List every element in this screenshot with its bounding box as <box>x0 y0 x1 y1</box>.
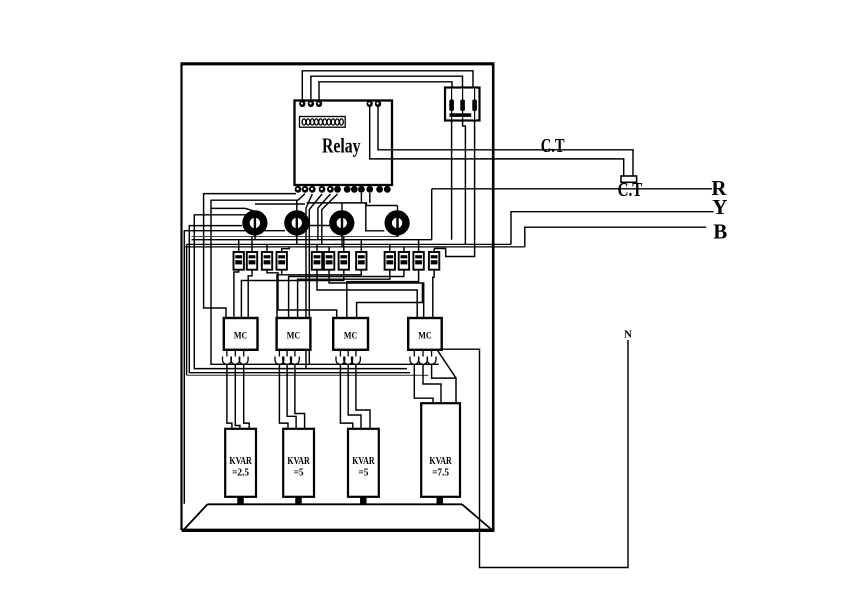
svg-text:=5: =5 <box>358 467 368 479</box>
relay bottom terminal 5 <box>327 186 334 193</box>
wire relay terminal 7 drop (to Y bus) <box>322 194 338 244</box>
wire cap2 bottom stub <box>295 497 302 505</box>
panel base trapezoid <box>183 504 493 530</box>
branch fuse 1b <box>247 252 257 270</box>
bus line Y phase <box>187 243 511 245</box>
wire rail-5 left (CT2 side / chassis drop) <box>184 231 285 504</box>
contactor MC3 <box>333 318 368 350</box>
wire Y phase line <box>511 212 714 245</box>
wire MC3 out2 to cap3 <box>348 364 361 430</box>
relay bottom terminal 8 <box>351 186 358 193</box>
wire fuse 1a to MC1 <box>234 270 239 318</box>
relay bottom terminal 2 <box>302 186 309 193</box>
wire fuse 3a top stub <box>389 244 391 252</box>
wire rail-2 left (to bump bus H1) <box>211 200 439 364</box>
fuse F1 <box>449 100 454 112</box>
contactor MC2 terminal 3 <box>291 350 300 365</box>
wire fuse 1b top stub <box>251 237 253 253</box>
wire CT3 right riser <box>366 203 385 231</box>
wire fuse 1d top stub <box>282 247 290 252</box>
relay bottom terminal 11 <box>376 186 383 193</box>
branch fuse 1d <box>277 252 287 270</box>
wire fuse F2 to Y bus <box>463 118 466 244</box>
branch fuse 3a <box>385 252 395 270</box>
svg-text:N: N <box>624 329 632 341</box>
capacitor C3 KVAR =5 <box>348 429 379 497</box>
wire MC3 out3 to cap3 <box>356 364 370 430</box>
wire cap3 bottom stub <box>360 497 367 505</box>
wire relay terminal 9 stub <box>360 193 362 203</box>
contactor MC1 terminal 2 <box>231 350 240 365</box>
wire fuse 3c to MC3 <box>347 270 419 318</box>
wire C.T secondary 1 from relay <box>378 106 633 177</box>
branch fuse 3b <box>399 252 409 270</box>
incoming fuse box <box>445 88 480 121</box>
wire MC4 out3 link <box>432 364 456 378</box>
svg-text:=5: =5 <box>294 467 304 479</box>
wire CT3 primary <box>341 203 343 247</box>
branch fuse 3d <box>429 252 439 270</box>
wire incoming fuse F3 through-wire <box>474 89 476 101</box>
wire fuse 2a to MC4 <box>317 270 417 318</box>
contactor MC2 terminal 2 <box>283 350 292 365</box>
wire neutral N run <box>438 340 628 568</box>
branch fuse 2b <box>324 252 334 270</box>
wire fuse F1 to R bus <box>451 118 453 240</box>
wire fuse 1b to MC1 <box>248 270 252 318</box>
wire CT1 primary over toroid <box>254 212 256 236</box>
wire MC2 out2 to cap2 <box>287 364 296 430</box>
wire fuse 2c to MC1 <box>241 270 343 318</box>
bus H4 (gray) <box>187 374 429 376</box>
svg-text:Relay: Relay <box>322 134 361 158</box>
wire CT2-CT3 link <box>309 225 329 227</box>
capacitor C4 KVAR =7.5 <box>421 403 460 497</box>
wire MC3 third input <box>357 283 423 318</box>
capacitor C1 KVAR =2.5 <box>225 429 256 497</box>
svg-text:MC: MC <box>344 332 358 342</box>
relay top terminal 2 <box>308 101 314 107</box>
relay bottom terminal 10 <box>366 186 373 193</box>
relay bottom terminal 7 <box>344 186 351 193</box>
branch fuse 2c <box>339 252 349 270</box>
wire R phase line <box>432 188 712 190</box>
wire fuse 1d to MC2 <box>277 270 282 318</box>
contactor MC3 terminal 2 <box>344 350 353 365</box>
wire MC1 out1 to cap1 <box>227 364 232 430</box>
wire CT4 feed from relay <box>307 203 398 206</box>
wire MC3 out1 to cap3 <box>340 364 352 430</box>
bus line R phase <box>192 239 432 241</box>
relay display <box>300 117 346 128</box>
contactor MC2 terminal 1 <box>275 350 284 365</box>
contactor MC1 terminal 1 <box>223 350 232 365</box>
wire cap4 bottom stub <box>437 497 444 505</box>
contactor MC4 terminal 3 <box>427 350 436 365</box>
wire MC1 out3 to cap1 <box>244 364 250 430</box>
relay bottom terminal 6 <box>334 186 341 193</box>
wire fuse 3b to MC2 <box>289 270 404 318</box>
wire rail-4 left (CT1 side / bus H3) <box>189 226 410 373</box>
panel enclosure <box>181 64 495 531</box>
CT toroid 4 <box>388 214 406 232</box>
contactor MC3 terminal 1 <box>336 350 345 365</box>
branch fuse 1a <box>234 252 244 270</box>
svg-text:=2.5: =2.5 <box>232 467 249 479</box>
CT toroid 2 <box>288 214 306 232</box>
relay bottom terminal 12 <box>384 186 391 193</box>
contactor MC3 terminal 3 <box>352 350 361 365</box>
bus line common (gray) <box>192 236 400 238</box>
svg-text:MC: MC <box>418 332 432 342</box>
CT toroid 3 <box>333 214 351 232</box>
wire incoming fuse F1 through-wire <box>451 89 453 101</box>
relay U1 <box>295 101 393 186</box>
relay top terminal 3 <box>316 101 322 107</box>
wire fuse 2d top stub <box>360 240 362 252</box>
wire fuse F3 to B-side fuse 12 <box>434 118 475 257</box>
wire incoming fuse F2 through-wire <box>462 89 464 101</box>
fuse F3 <box>472 100 477 112</box>
wire fuse 3b top stub <box>403 247 405 252</box>
wire relay terminal 3 to fuse F1 <box>319 82 452 101</box>
contactor MC1 terminal 3 <box>239 350 248 365</box>
svg-text:KVAR: KVAR <box>287 455 310 467</box>
bus line B phase <box>184 246 525 248</box>
svg-text:B: B <box>713 220 727 244</box>
wire CT4 primary over toroid <box>396 212 398 236</box>
wire fuse 2a top stub <box>316 244 318 252</box>
current transformer C.T symbol <box>618 176 643 201</box>
wire relay terminal 4 drop (to H2 bus) <box>306 194 312 369</box>
relay top terminal 4 <box>367 101 373 107</box>
wire relay terminal 2 to fuse F2 <box>311 76 463 101</box>
wire CT1 link <box>255 203 305 205</box>
branch fuse 3c <box>413 252 423 270</box>
wire CT2 primary over toroid <box>296 212 298 236</box>
wire relay terminal 10 stub <box>369 193 371 203</box>
contactor MC1 <box>224 318 258 350</box>
wire MC2 out1 to cap2 <box>279 364 288 430</box>
contactor MC4 terminal 2 <box>419 350 428 365</box>
wire fuse 1d to fuse 2d tie <box>282 270 362 275</box>
svg-text:C.T: C.T <box>541 135 565 157</box>
svg-text:MC: MC <box>234 332 248 342</box>
wire rail-6 left (Y bus riser) <box>186 244 188 375</box>
wire fuse 3d to MC4 <box>433 270 434 318</box>
relay bottom terminal 3 <box>309 186 316 193</box>
wire fuse 3c top stub <box>418 240 420 252</box>
svg-text:KVAR: KVAR <box>429 455 452 467</box>
svg-text:KVAR: KVAR <box>229 455 252 467</box>
wire B phase line <box>525 227 706 247</box>
branch fuse 1c <box>262 252 272 270</box>
wire relay terminal 1 to fuse F3 <box>302 71 473 101</box>
contactor MC4 <box>408 318 442 350</box>
branch fuse 2a <box>312 252 322 270</box>
wire fuse 3d top stub <box>433 249 435 253</box>
wire relay terminal 6 drop (to R bus) <box>318 194 331 240</box>
fuse box link bar <box>450 113 472 117</box>
svg-text:=7.5: =7.5 <box>432 467 449 479</box>
capacitor C2 KVAR =5 <box>283 429 314 497</box>
fuse F2 <box>460 100 465 112</box>
contactor MC4 terminal 1 <box>410 350 419 365</box>
wire cap1 bottom stub <box>237 497 244 505</box>
contactor MC2 <box>277 318 311 350</box>
wire fuse 2b top stub <box>328 247 330 252</box>
svg-text:Y: Y <box>712 195 727 219</box>
wire R phase drop to bus <box>431 189 433 240</box>
wire fuse 1c top stub <box>266 244 268 252</box>
wire fuse 3a to MC2 <box>298 270 390 318</box>
wire CT1 primary <box>254 215 256 240</box>
CT toroid 1 <box>246 214 264 232</box>
branch fuse 2d <box>356 252 366 270</box>
relay bottom terminal 4 <box>319 186 326 193</box>
relay top terminal 1 <box>299 101 305 107</box>
wire relay terminal 5 drop (to H1 bus) <box>309 194 322 364</box>
wire CT1 secondary diagonal <box>211 208 253 210</box>
wire fuse 1a top stub <box>238 240 240 252</box>
wire fuse 2b to MC4 <box>329 270 424 318</box>
wire fuse 2c top stub <box>343 237 345 253</box>
relay bottom terminal 9 <box>358 186 365 193</box>
svg-text:MC: MC <box>287 332 301 342</box>
relay top terminal 5 <box>375 101 381 107</box>
svg-text:C.T: C.T <box>618 179 643 201</box>
wire MC4 out1 to cap4 <box>414 364 433 404</box>
relay bottom terminal 1 <box>295 186 302 193</box>
wire C.T secondary 2 from relay <box>370 106 624 177</box>
wire rail-3 left (CT1 feed / bus H2) <box>194 215 407 369</box>
wire CT2 primary <box>296 200 298 244</box>
wire relay terminal 2 diagonal to CT2 feed <box>298 194 305 201</box>
wire CT3 primary over toroid <box>341 212 343 236</box>
wire MC1 out2 to cap1 <box>235 364 240 430</box>
wire CT4 primary <box>397 206 399 237</box>
wire MC2 out3 to cap2 <box>295 364 305 430</box>
svg-text:KVAR: KVAR <box>352 455 375 467</box>
wire MC4 diagonal to cap4 <box>438 351 456 404</box>
wire fuse 1c to MC3 <box>267 270 337 318</box>
wire rail-1 left (to MC1 top) <box>204 194 296 318</box>
wire MC4 out2 to cap4 <box>423 364 441 404</box>
